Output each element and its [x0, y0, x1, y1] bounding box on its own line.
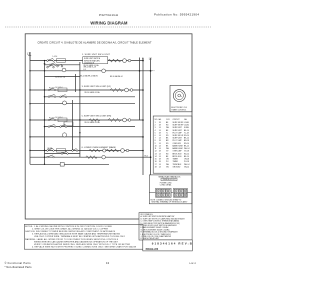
wire L1 bus vertical: [29, 52, 31, 164]
svg-text:NEUTRAL TERMINAL OF TERM BLOCK: NEUTRAL TERMINAL OF TERM BLOCK ASSY: [152, 201, 189, 204]
switch SW1 (RF): [47, 58, 66, 68]
switch SW4 oven selector: [47, 148, 66, 158]
resistor bake element rung9: [89, 149, 101, 152]
svg-text:1-4 2-4: 1-4 2-4: [53, 56, 58, 58]
svg-text:TB-2: TB-2: [144, 156, 148, 158]
svg-text:TERM BLOCK KIT: TERM BLOCK KIT: [163, 179, 176, 181]
svg-text:3. REPLACE ALL WIRE AND INSULA: 3. REPLACE ALL WIRE AND INSULATION WITH …: [32, 233, 121, 236]
svg-text:NOTES: 1. ALL WIRING SHOWN WIT: NOTES: 1. ALL WIRING SHOWN WITH CONTROLS…: [25, 225, 113, 228]
main diagram border box: [25, 34, 192, 219]
switch SW3 (RR): [48, 118, 67, 128]
svg-text:1-4 2-4 3-4: 1-4 2-4 3-4: [55, 87, 63, 89]
perforation dotted line: [5, 26, 212, 28]
svg-text:P-1 P-2: P-1 P-2: [49, 117, 54, 119]
contacts block B extra: [60, 95, 67, 98]
svg-text:4. REPLACE WIRE NUTS WITH PROP: 4. REPLACE WIRE NUTS WITH PROPERLY SIZED…: [32, 246, 137, 249]
element E1 surface unit RF: [108, 59, 131, 63]
pilot lamp PL2: [102, 69, 106, 73]
svg-text:P-1 P-2: P-1 P-2: [49, 87, 54, 89]
dash marks right of L2 junction: [152, 70, 155, 72]
rung 1 surface unit RF: [30, 60, 143, 62]
timer motor inner circle: [175, 92, 183, 100]
svg-text:GROUND: GROUND: [173, 166, 182, 168]
rung 9 lower oven element: [30, 150, 143, 152]
rung 2 pilot lamp line: [30, 70, 151, 72]
svg-text:1. SURF UNIT SW & UNIT: 1. SURF UNIT SW & UNIT: [82, 54, 111, 56]
wire block A lower: [45, 76, 80, 78]
svg-text:2. WIRE COLOR CODE PER CHART,: 2. WIRE COLOR CODE PER CHART, ALL WIRING…: [32, 227, 109, 230]
wire color table box: [153, 116, 192, 173]
svg-text:USE ONLY COPPER WIRE. TERMINAL: USE ONLY COPPER WIRE. TERMINALS MUST BE …: [34, 235, 126, 238]
svg-text:BAKE ELEM: BAKE ELEM: [173, 144, 183, 147]
svg-text:WARNING: LABEL ALL WIRES PRIOR: WARNING: LABEL ALL WIRES PRIOR TO DISCON…: [25, 238, 119, 241]
rung 6 surface unit RR: [30, 119, 143, 121]
svg-text:5. SURF UNIT SW & UNIT (RR): 5. SURF UNIT SW & UNIT (RR): [82, 116, 112, 118]
wire L2 bus vertical: [150, 58, 152, 175]
svg-text:13: 13: [106, 261, 110, 265]
wire inter vertical c: [72, 100, 74, 151]
wire inter vertical a: [74, 74, 76, 92]
contacts block A intermediate: [49, 63, 63, 67]
rung 4 secondary: [45, 96, 136, 98]
wire inter vertical b: [79, 62, 81, 157]
svg-text:3. SURF UNIT SW & UNIT (LR): 3. SURF UNIT SW & UNIT (LR): [82, 86, 112, 88]
svg-text:VERIFY OPERATION AFTER SERVICI: VERIFY OPERATION AFTER SERVICING. REPLAC…: [34, 243, 131, 246]
element E3 surface unit RR: [108, 118, 131, 122]
svg-text:6. LOWER OVEN ELEMENT (BAKE): 6. LOWER OVEN ELEMENT (BAKE): [82, 146, 117, 149]
L1 wire stub tick: [28, 52, 31, 61]
svg-text:PAGE-2/2: PAGE-2/2: [146, 247, 159, 251]
svg-text:CONN. DETAIL: CONN. DETAIL: [160, 184, 172, 187]
revision box: [143, 240, 193, 251]
svg-text:CREATE CIRCUIT 4. DIABLOTE DE: CREATE CIRCUIT 4. DIABLOTE DE ALAMBRE DE…: [38, 40, 152, 44]
timer motor outer circle: [173, 90, 185, 102]
terminal block box: [149, 175, 192, 204]
small part box: [161, 178, 177, 181]
rung 10 broil line: [30, 156, 151, 158]
svg-text:© Functional Parts: © Functional Parts: [5, 261, 32, 265]
svg-text:1250/2500 W: 1250/2500 W: [84, 63, 94, 65]
terminal stub wires: [149, 192, 192, 194]
rung 7 secondary: [45, 126, 136, 128]
wire N bus vertical: [142, 58, 144, 175]
rung 3 surface unit LR: [30, 89, 143, 91]
junction dot block A: [44, 63, 46, 65]
contacts block D extra: [61, 149, 78, 155]
svg-text:1-4 2-4 3-4: 1-4 2-4 3-4: [55, 117, 63, 119]
svg-text:18: 18: [155, 166, 157, 168]
wire block D intermediate: [45, 153, 81, 155]
pilot lamp PL1: [62, 68, 66, 72]
terminal group left: [156, 188, 172, 197]
relay box left: [64, 122, 73, 126]
svg-text:NO. GA.: NO. GA.: [155, 118, 162, 121]
pilot lamp PL4 rung8: [62, 133, 66, 137]
svg-text:WIRING ERRORS CAN CAUSE IMPROP: WIRING ERRORS CAN CAUSE IMPROPER AND DAN…: [34, 240, 119, 243]
element E4 bake element: [106, 149, 129, 153]
thermostat small component rung11: [60, 163, 64, 167]
svg-text:BAKE ELEM: BAKE ELEM: [173, 147, 183, 150]
resistor surface element rung6: [89, 119, 100, 122]
lamp rung9: [103, 149, 106, 152]
svg-text:P32T3A1GH: P32T3A1GH: [99, 13, 118, 17]
rung 11 bottom line: [30, 163, 109, 165]
svg-text:918346164 REV:B: 918346164 REV:B: [152, 242, 192, 246]
timer motor mark: [178, 94, 181, 97]
contacts block C extra: [60, 124, 67, 127]
wire bus2 vertical: [44, 61, 46, 165]
key list box: [139, 213, 192, 240]
svg-text:CAUTION: DISCONNECT POWER BEFO: CAUTION: DISCONNECT POWER BEFORE SERVICI…: [25, 230, 116, 233]
svg-text:GN-14: GN-14: [184, 166, 189, 168]
table header: [155, 118, 190, 168]
lamp oven light: [102, 155, 106, 159]
rung 8: [30, 136, 143, 138]
wire mid vertical: [139, 58, 141, 121]
switch SW2 (LR): [48, 88, 67, 98]
resistor broil element: [86, 156, 98, 159]
svg-text:14: 14: [159, 166, 161, 168]
junction dots: [29, 60, 151, 165]
pilot lamp PL3 rung5: [63, 101, 67, 105]
notes block: [24, 224, 143, 249]
rung 5: [30, 103, 135, 105]
timer box: [170, 85, 192, 111]
svg-text:14012: 14012: [189, 263, 197, 265]
svg-text:TIMER CONTROL: TIMER CONTROL: [171, 109, 186, 111]
terminal group right: [173, 188, 187, 197]
svg-text:Publication No: 5995421904: Publication No: 5995421904: [154, 13, 199, 17]
svg-text:CIRCUIT: CIRCUIT: [173, 119, 181, 121]
svg-text:* Non-illustrated Parts: * Non-illustrated Parts: [5, 265, 33, 269]
svg-text:WIRING DIAGRAM: WIRING DIAGRAM: [90, 20, 128, 25]
wire block A intermediate: [45, 64, 80, 66]
element E2 surface unit LR: [110, 88, 133, 92]
rung1 framed label: [83, 57, 108, 64]
